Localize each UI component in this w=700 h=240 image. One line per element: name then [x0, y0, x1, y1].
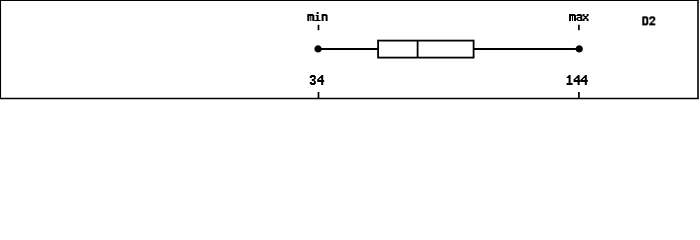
- label D2: [642, 16, 655, 25]
- plot border frame top: [0, 0, 699, 2]
- tick below min label: [318, 25, 320, 30]
- min data dot: [314, 45, 321, 52]
- whisker line min to max: [318, 48, 579, 50]
- plot border frame bottom: [0, 98, 699, 100]
- label max: [569, 14, 589, 21]
- box Q1 to Q3: [378, 41, 474, 58]
- tick below max label: [578, 25, 580, 30]
- plot border frame left: [0, 0, 2, 99]
- bottom tick at max position: [578, 92, 580, 98]
- plot border frame right: [697, 0, 699, 99]
- bottom tick at min position: [318, 92, 320, 98]
- value label 144: [567, 75, 588, 85]
- max data dot: [576, 45, 583, 52]
- label min: [307, 12, 327, 21]
- value label 34: [310, 75, 324, 85]
- median line: [417, 41, 419, 58]
